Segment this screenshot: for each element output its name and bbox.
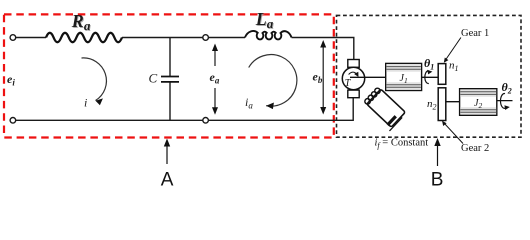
arrow to gear 1 [446,38,461,61]
shaft between J1 and gear 1 [422,76,439,78]
voltage arrow eb [322,45,324,111]
rotation symbol theta2 [500,94,505,109]
svg-text:if = Constant: if = Constant [375,138,429,151]
motor body circle [342,67,364,89]
wire top [16,38,354,60]
inductor La coil [245,31,292,39]
current ia loop arrow [249,55,297,107]
pointer arrow B [437,143,439,166]
svg-text:Gear 1: Gear 1 [461,28,489,39]
resistor Ra squiggle [46,33,122,42]
node top mid terminal [203,35,209,41]
arrow to gear 2 [444,123,463,144]
capacitor C plates [161,77,179,82]
dashed box B (black) [337,15,522,137]
wire bottom [16,98,354,121]
voltage arrow ea [214,48,216,110]
svg-text:A: A [161,170,174,191]
svg-text:C: C [149,71,158,86]
terminal input bottom [10,118,16,124]
inertia J2 [460,89,497,116]
rotation symbol theta1 [425,71,429,84]
svg-text:i: i [84,96,87,110]
dashed box A (red) [4,14,334,137]
gear 1 [438,64,446,85]
motor top brush [348,60,359,68]
motor bottom brush [348,90,359,98]
shaft 2 [446,101,513,102]
gear 2 [438,88,446,121]
motor rotation arrow [349,72,358,75]
svg-text:B: B [431,170,444,191]
current i loop arrow [82,58,107,101]
svg-text:Gear 2: Gear 2 [461,143,489,154]
pointer arrow A [166,143,168,164]
motor shaft 1 [350,76,386,78]
inertia J1 [386,63,422,90]
terminal input top [10,35,16,41]
field winding [361,86,406,131]
node bottom mid terminal [203,118,209,124]
capacitor C wire [169,38,171,121]
